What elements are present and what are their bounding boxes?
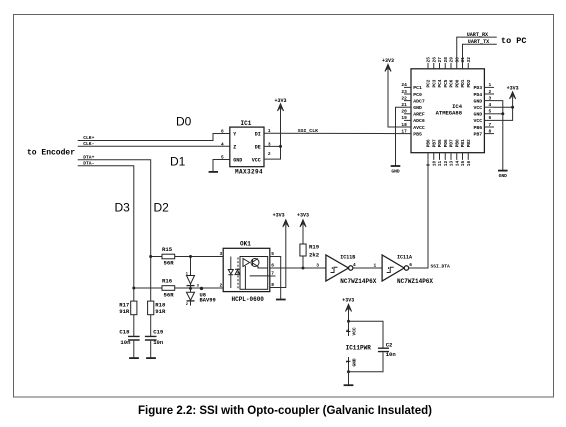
svg-text:GND: GND: [413, 105, 422, 111]
power +3V3 at OK1: [273, 213, 289, 227]
svg-text:+3V3: +3V3: [507, 86, 519, 92]
wire UART_TX: [463, 44, 497, 63]
svg-text:7: 7: [271, 271, 274, 277]
wire IC4 AVCC to +3V3: [388, 71, 404, 128]
IC1 MAX3294 box: [230, 127, 264, 167]
svg-text:VCC: VCC: [352, 327, 358, 335]
svg-text:+3V3: +3V3: [273, 213, 285, 219]
svg-text:CLK-: CLK-: [83, 141, 94, 147]
svg-text:PC2: PC2: [427, 79, 432, 87]
svg-text:28: 28: [443, 57, 449, 63]
svg-text:HCPL-0600: HCPL-0600: [232, 296, 265, 303]
svg-text:5: 5: [489, 109, 492, 115]
IC4 left pin 18 AVCC: [401, 122, 425, 131]
svg-text:6: 6: [221, 129, 224, 135]
wire IC11PWR to ground: [348, 372, 350, 385]
text to PC: [501, 36, 527, 46]
svg-text:OK1: OK1: [240, 241, 251, 248]
svg-text:26: 26: [431, 57, 437, 63]
svg-text:Figure 2.2: SSI with Opto-coup: Figure 2.2: SSI with Opto-coupler (Galva…: [138, 405, 432, 417]
svg-text:VCC: VCC: [473, 118, 482, 124]
wire IC1 GND pin: [213, 160, 230, 172]
svg-text:2k2: 2k2: [309, 251, 320, 258]
svg-text:PC3: PC3: [432, 79, 437, 87]
IC4 right pin 1 PD3: [473, 82, 494, 91]
svg-text:4: 4: [489, 102, 492, 108]
svg-text:ADC6: ADC6: [413, 118, 425, 124]
IC1 pin GND: [221, 154, 242, 163]
ground IC11PWR: [344, 384, 354, 386]
svg-text:R16: R16: [162, 278, 173, 285]
svg-text:IC1: IC1: [241, 120, 252, 127]
label CLK+: [83, 135, 94, 141]
wire DTA+: [78, 160, 151, 301]
svg-text:3: 3: [316, 263, 319, 269]
label HCPL-0600: [232, 296, 265, 303]
IC4 bottom pin 13 PD7: [449, 139, 455, 166]
OK1 interior: [228, 257, 269, 290]
label MAX3294: [235, 169, 263, 176]
wire CLK-: [78, 145, 230, 147]
svg-text:PC0: PC0: [413, 92, 422, 98]
svg-text:D3: D3: [115, 201, 131, 215]
junction IC11PWR GND: [347, 370, 350, 373]
svg-text:11: 11: [437, 160, 443, 166]
resistor R18: [148, 301, 166, 336]
wire IC4 VCC right pin4: [494, 106, 513, 108]
svg-text:7: 7: [489, 122, 492, 128]
svg-text:3: 3: [489, 95, 492, 101]
svg-text:PD4: PD4: [473, 92, 482, 98]
power +3V3 at IC4 left: [382, 58, 394, 72]
label CLK-: [83, 141, 94, 147]
wire SSI_DTA net: [409, 160, 428, 268]
IC4 left pin 20 AREF: [401, 109, 425, 118]
svg-text:16: 16: [466, 160, 472, 166]
OK1 output pin 6: [270, 263, 303, 269]
IC4 ATMEGA88 box: [411, 69, 484, 153]
svg-text:UART_RX: UART_RX: [467, 32, 489, 38]
power +3V3 at IC1: [274, 98, 286, 111]
svg-text:10n: 10n: [386, 351, 397, 358]
ground IC1: [209, 171, 218, 173]
text to Encoder: [27, 149, 75, 158]
svg-text:23: 23: [401, 89, 407, 95]
svg-text:PD6: PD6: [444, 139, 449, 147]
wire IC4 GND right pin5: [494, 113, 503, 115]
svg-text:NC7WZ14P6X: NC7WZ14P6X: [340, 278, 376, 285]
label U8 pin3: [197, 285, 199, 289]
svg-text:GND: GND: [352, 358, 358, 366]
svg-text:4: 4: [353, 262, 356, 268]
svg-text:8: 8: [489, 128, 492, 134]
IC4 right pin 2 PD4: [473, 89, 494, 98]
svg-text:14: 14: [454, 160, 460, 166]
svg-text:AVCC: AVCC: [413, 125, 425, 131]
junction IC11PWR VCC: [347, 320, 350, 323]
IC4 left pin 23 PC0: [401, 89, 422, 98]
inverter IC11B: [326, 255, 377, 286]
svg-text:10n: 10n: [120, 339, 131, 346]
IC4 top pin 30 PD0: [454, 57, 460, 88]
svg-text:IC11A: IC11A: [397, 255, 412, 261]
svg-text:GND: GND: [391, 169, 400, 175]
wire IC4 VCC right: [494, 98, 513, 120]
label DTA-: [83, 161, 94, 167]
power +3V3 at IC11PWR: [342, 297, 354, 321]
svg-text:2: 2: [186, 303, 188, 307]
svg-text:17: 17: [401, 128, 407, 134]
svg-text:5: 5: [271, 251, 274, 257]
junction IC1 DE: [279, 145, 282, 148]
junction R16 DTA-: [132, 287, 135, 290]
svg-text:D1: D1: [170, 155, 186, 169]
label DTA+: [83, 154, 94, 160]
svg-text:SSI_DTA: SSI_DTA: [431, 263, 451, 269]
svg-text:29: 29: [449, 57, 455, 63]
resistor R16: [134, 278, 223, 299]
IC1 pin VCC: [252, 151, 271, 163]
svg-text:22: 22: [401, 95, 407, 101]
IC4 top pin 26 PC3: [431, 57, 437, 88]
svg-text:27: 27: [437, 57, 443, 63]
IC4 top pin 29 PC6: [449, 57, 455, 88]
svg-text:Z: Z: [233, 145, 236, 151]
svg-text:24: 24: [401, 82, 407, 88]
capacitor C19: [145, 329, 164, 358]
svg-text:DTA+: DTA+: [83, 154, 94, 160]
ground IC4 right: [498, 171, 508, 179]
svg-text:56R: 56R: [164, 291, 175, 298]
label IC11PWR: [346, 344, 372, 351]
IC4 left pin 21 GND: [401, 102, 422, 111]
inverter IC11A: [382, 255, 433, 286]
svg-text:PB0: PB0: [455, 139, 460, 147]
wire IC1 VCC to +3V3: [264, 110, 281, 159]
wire IC4 GND left: [396, 107, 405, 166]
svg-text:12: 12: [443, 160, 449, 166]
svg-text:4: 4: [221, 141, 224, 147]
svg-text:3: 3: [197, 285, 199, 289]
svg-text:IC11B: IC11B: [340, 255, 355, 261]
svg-text:32: 32: [466, 57, 472, 63]
svg-text:VCC: VCC: [473, 105, 482, 111]
svg-text:2: 2: [345, 360, 351, 363]
svg-text:PD0: PD0: [455, 79, 460, 87]
IC4 top pin 27 PC4: [437, 57, 443, 88]
label D0: [176, 115, 192, 129]
svg-text:D0: D0: [176, 115, 192, 129]
wire DTA-: [78, 166, 134, 301]
svg-text:6: 6: [271, 263, 274, 269]
IC4 bottom pin 10 PB7: [431, 139, 437, 166]
junction VCC right: [511, 106, 514, 109]
IC4 top pin 32 PD2: [466, 57, 472, 88]
wire IC11B to IC11A: [353, 262, 382, 268]
svg-text:PD3: PD3: [473, 85, 482, 91]
IC4 left pin 24 PC1: [401, 82, 422, 91]
svg-text:DI: DI: [255, 132, 261, 138]
IC4 bottom pin 9 PB6: [426, 139, 432, 166]
svg-text:PB6: PB6: [473, 125, 482, 131]
ground IC4 left: [391, 166, 401, 175]
IC11PWR VCC pin: [345, 321, 358, 336]
svg-text:PC4: PC4: [438, 79, 443, 87]
svg-text:SSI_CLK: SSI_CLK: [298, 128, 318, 134]
svg-text:2: 2: [220, 283, 223, 289]
IC4 right pin 8 PB7: [473, 128, 494, 137]
svg-text:ATMEGA88: ATMEGA88: [436, 109, 463, 116]
IC1 pin DI: [255, 128, 271, 138]
label IC1: [241, 120, 252, 127]
junction U8 mid: [189, 287, 192, 290]
label UART_RX: [467, 32, 489, 38]
svg-text:IC11PWR: IC11PWR: [346, 344, 372, 351]
IC4 bottom pin 12 PD6: [443, 139, 449, 166]
svg-text:C2: C2: [386, 342, 393, 349]
svg-text:5: 5: [345, 329, 351, 332]
resistor R19: [300, 226, 320, 268]
svg-text:6: 6: [409, 262, 412, 268]
diode U8 bottom half: [186, 292, 195, 307]
ground C19: [146, 357, 156, 359]
label SSI_CLK: [298, 128, 318, 134]
wire IC4 GND right: [494, 101, 503, 171]
svg-text:to Encoder: to Encoder: [27, 149, 75, 158]
junction R19 output: [302, 267, 305, 270]
svg-text:C19: C19: [153, 329, 164, 336]
IC1 pin DE: [255, 141, 271, 150]
svg-text:to PC: to PC: [501, 36, 527, 46]
junction net dot: [200, 287, 203, 290]
svg-text:8: 8: [271, 282, 274, 288]
power +3V3 at R19: [297, 213, 309, 227]
OK1 pin 2 number: [220, 283, 223, 289]
svg-text:C18: C18: [119, 329, 130, 336]
svg-text:25: 25: [426, 57, 432, 63]
OK1 pin 3 number: [220, 251, 223, 257]
IC4 left pin 22 ADC7: [401, 95, 425, 104]
IC4 right pin 4 VCC: [473, 102, 494, 111]
label ATMEGA88: [436, 109, 463, 116]
IC4 bottom pin 15 PB1: [460, 139, 466, 166]
IC4 right pin 5 GND: [473, 109, 494, 118]
svg-text:NC7WZ14P6X: NC7WZ14P6X: [397, 278, 433, 285]
svg-text:VCC: VCC: [252, 158, 261, 164]
IC1 pin Z: [221, 141, 236, 150]
wire to IC11B input: [303, 263, 326, 269]
svg-text:19: 19: [401, 115, 407, 121]
svg-text:2: 2: [268, 151, 271, 157]
ground C18: [129, 357, 139, 359]
wire IC1 DE to +3V3: [264, 145, 281, 147]
svg-text:GND: GND: [499, 173, 508, 179]
svg-text:PC1: PC1: [413, 85, 422, 91]
svg-text:20: 20: [401, 109, 407, 115]
IC11PWR GND pin: [345, 357, 358, 372]
svg-text:ADC7: ADC7: [413, 98, 425, 104]
svg-text:PD2: PD2: [467, 79, 472, 87]
svg-text:+3V3: +3V3: [382, 58, 394, 64]
svg-text:DTA-: DTA-: [83, 161, 94, 167]
svg-text:6: 6: [489, 115, 492, 121]
svg-text:PB7: PB7: [432, 139, 437, 147]
svg-text:PD5: PD5: [438, 139, 443, 147]
IC4 top pin 25 PC2: [426, 57, 432, 88]
junction R15 DTA+: [149, 255, 152, 258]
IC4 bottom pin 14 PB0: [454, 139, 460, 166]
svg-text:R19: R19: [309, 244, 320, 251]
svg-text:AREF: AREF: [413, 112, 425, 118]
svg-text:PB6: PB6: [427, 139, 432, 147]
IC4 right pin 6 VCC: [473, 115, 494, 124]
resistor R17: [119, 301, 137, 336]
label BAV99: [200, 297, 216, 303]
wire CLK+: [78, 134, 230, 141]
resistor R15: [151, 246, 224, 266]
svg-text:Y: Y: [233, 132, 236, 138]
IC4 left pin 19 ADC6: [401, 115, 425, 124]
svg-text:CLK+: CLK+: [83, 135, 94, 141]
svg-text:DE: DE: [255, 145, 261, 151]
svg-text:91R: 91R: [155, 308, 166, 315]
svg-text:56R: 56R: [164, 260, 175, 267]
wire SSI_CLK net: [264, 132, 404, 134]
svg-text:D2: D2: [154, 201, 170, 215]
svg-text:1: 1: [374, 262, 377, 268]
IC4 right pin 7 PB6: [473, 122, 494, 131]
label D3: [115, 201, 131, 215]
wire UART_RX: [457, 37, 497, 63]
OK1 pin 7 stub: [270, 271, 276, 277]
label OK1: [240, 241, 251, 248]
svg-text:PB1: PB1: [461, 139, 466, 147]
label D2: [154, 201, 170, 215]
svg-text:GND: GND: [473, 98, 482, 104]
IC4 bottom pin 11 PD5: [437, 139, 443, 166]
IC4 top pin 28 PC5: [443, 57, 449, 88]
svg-text:PC6: PC6: [450, 79, 455, 87]
svg-text:PD1: PD1: [461, 79, 466, 87]
power +3V3 at IC4 right: [507, 86, 519, 100]
svg-text:PB5: PB5: [413, 131, 422, 137]
svg-text:PD7: PD7: [450, 139, 455, 147]
svg-text:+3V3: +3V3: [274, 98, 286, 104]
junction U8 anode: [189, 255, 192, 258]
svg-text:PC5: PC5: [444, 79, 449, 87]
svg-text:+3V3: +3V3: [297, 213, 309, 219]
svg-text:10: 10: [431, 160, 437, 166]
IC4 left pin 17 PB5: [401, 128, 422, 137]
label D1: [170, 155, 186, 169]
svg-text:UART_TX: UART_TX: [468, 39, 490, 45]
diode U8 top half: [186, 257, 195, 293]
label U8: [200, 292, 206, 298]
IC1 pin Y: [221, 129, 236, 138]
svg-text:+3V3: +3V3: [342, 297, 354, 303]
svg-text:1: 1: [489, 82, 492, 88]
label IC4: [452, 103, 463, 110]
ground OK1: [276, 299, 286, 301]
label SSI_DTA: [431, 263, 451, 269]
svg-text:10n: 10n: [153, 339, 164, 346]
label UART_TX: [468, 39, 490, 45]
svg-text:15: 15: [460, 160, 466, 166]
OK1 HCPL-0600 box: [223, 248, 270, 291]
svg-text:MAX3294: MAX3294: [235, 169, 263, 176]
IC4 bottom pin 16 PB2: [466, 139, 472, 166]
svg-text:R15: R15: [162, 246, 173, 253]
caption Figure 2.2: [138, 405, 432, 417]
svg-text:GND: GND: [233, 158, 242, 164]
OK1 right pin 5 to ground: [270, 251, 281, 299]
svg-text:3: 3: [220, 251, 223, 257]
svg-text:91R: 91R: [119, 308, 130, 315]
capacitor C18: [119, 329, 139, 358]
svg-text:PB7: PB7: [473, 131, 482, 137]
IC4 top pin 31 PD1: [460, 57, 466, 88]
OK1 pin 8 to +3V3: [270, 226, 286, 288]
svg-text:PB2: PB2: [467, 139, 472, 147]
svg-text:GND: GND: [473, 112, 482, 118]
svg-text:2: 2: [489, 89, 492, 95]
svg-text:BAV99: BAV99: [200, 297, 216, 303]
junction GND right: [501, 112, 504, 115]
capacitor C2: [349, 321, 397, 372]
IC4 right pin 3 GND: [473, 95, 494, 104]
svg-text:13: 13: [449, 160, 455, 166]
